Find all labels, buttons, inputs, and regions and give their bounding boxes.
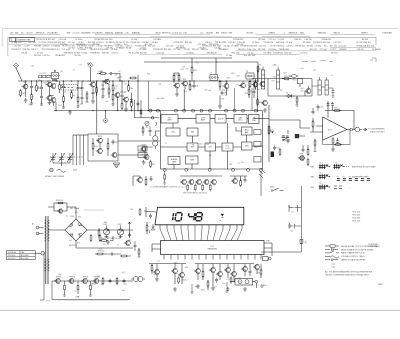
svg-text:MEDIUM WAVE OSCILLATOR SIGNAL: MEDIUM WAVE OSCILLATOR SIGNAL [341, 248, 374, 251]
transformer T901 core lines [46, 216, 48, 284]
clock IC bottom pins [164, 255, 261, 260]
svg-text:C17: C17 [157, 261, 160, 263]
clock IC left pin wires [152, 244, 161, 252]
svg-text:R52: R52 [238, 278, 241, 280]
feedback resistor R28 [334, 144, 342, 146]
bl cluster 1 wires [152, 264, 157, 277]
parts list table frame [8, 37, 376, 56]
svg-text:C14: C14 [70, 90, 73, 92]
below-triangle wires [333, 138, 338, 147]
svg-text:T3: T3 [246, 71, 248, 73]
svg-text:C17: C17 [124, 284, 127, 286]
psu lower parts row res [96, 253, 104, 255]
svg-text:R24: R24 [58, 274, 61, 276]
T2 feeder wire [216, 58, 218, 75]
svg-text:R63: R63 [195, 286, 198, 288]
capacitor C3 [62, 85, 65, 90]
svg-text:R44 120k: R44 120k [276, 42, 284, 44]
svg-text:AM: AM [15, 32, 18, 35]
pad P3 [175, 109, 178, 112]
svg-text:R24: R24 [99, 248, 102, 250]
svg-text:R77: R77 [292, 79, 295, 81]
legend row 1 [325, 245, 380, 248]
svg-text:T903 25V: T903 25V [352, 218, 361, 220]
svg-text:C5: C5 [115, 86, 117, 88]
svg-text:T2: T2 [210, 73, 212, 75]
svg-text:10p: 10p [257, 89, 260, 91]
svg-text:R31: R31 [147, 73, 150, 75]
svg-text:120k: 120k [288, 76, 292, 78]
output stage box [235, 279, 253, 286]
svg-text:1n: 1n [128, 223, 130, 225]
svg-text:TR905: TR905 [83, 277, 89, 279]
svg-text:C8: C8 [196, 86, 198, 88]
svg-text:DIGIT STROBE D1 D2 D3 D4: DIGIT STROBE D1 D2 D3 D4 [183, 192, 207, 194]
svg-text:R5 1M: R5 1M [22, 52, 28, 54]
tone pot box [295, 134, 305, 138]
parts list rule segments [8, 37, 376, 55]
svg-text:C15: C15 [276, 148, 279, 150]
svg-text:AM: AM [216, 32, 219, 35]
svg-text:47u: 47u [75, 212, 78, 214]
svg-text:SET FAST·SLOW: SET FAST·SLOW [107, 237, 121, 240]
capacitor C5b [92, 91, 95, 96]
SK2 contact pairs [337, 176, 374, 182]
dc junction dots [107, 229, 120, 230]
pad P7 [209, 109, 212, 112]
transistor TR16 [96, 136, 102, 143]
svg-text:R12: R12 [243, 269, 246, 271]
stage2 stubs [60, 81, 64, 93]
svg-text:25u: 25u [103, 244, 106, 246]
svg-text:MM5316N: MM5316N [208, 248, 218, 250]
volume pot resistor R22v [268, 125, 274, 136]
second tier chain c6 wire [86, 91, 89, 102]
transistor TR21 [298, 154, 304, 161]
svg-text:C44 25u: C44 25u [305, 39, 312, 41]
series resistor R902 [99, 234, 106, 242]
bl cluster 4 wires [213, 264, 220, 286]
output coupling elco C18 [355, 127, 360, 132]
resistor R13b [255, 80, 257, 88]
svg-text:C44: C44 [75, 297, 78, 299]
svg-text:56k: 56k [222, 99, 225, 101]
resistor R8 [121, 102, 123, 110]
block U9 BUF [187, 143, 198, 151]
bl cluster 4 [209, 267, 215, 272]
svg-text:R7: R7 [227, 90, 229, 92]
svg-text:R15: R15 [193, 70, 196, 72]
svg-text:FM AFC · AM TUNING: FM AFC · AM TUNING [45, 175, 65, 178]
svg-text:680: 680 [87, 81, 90, 83]
bl cluster 6 [241, 266, 247, 271]
block U14 TONE [186, 156, 199, 164]
module feed vertical 2 [251, 88, 253, 111]
op-amp IC3 triangle [323, 117, 347, 140]
svg-text:1 3 5: 1 3 5 [319, 183, 323, 185]
svg-text:4p7: 4p7 [280, 89, 283, 91]
bl cluster 2 [171, 268, 177, 273]
under-table marks right [302, 61, 333, 62]
svg-text:4k7: 4k7 [237, 76, 240, 78]
svg-text:R77: R77 [80, 104, 83, 106]
wire to op-amp [269, 120, 310, 128]
trimmer right parts [146, 224, 148, 232]
svg-text:C902: C902 [118, 224, 122, 226]
left feed part [140, 108, 142, 115]
mains selector pad [41, 251, 45, 255]
stage wires TL right [113, 81, 132, 110]
svg-text:C2 68p: C2 68p [226, 55, 232, 57]
svg-text:50Hz: 50Hz [266, 241, 270, 243]
pad P9 [233, 109, 236, 112]
TR14b wire [305, 86, 309, 96]
IF can T7 tall [325, 77, 328, 95]
svg-text:2nd IF: 2nd IF [218, 119, 224, 121]
legend row 5 [325, 259, 366, 262]
tone cap [287, 139, 290, 144]
bl cluster 6 wires [245, 264, 250, 276]
resistor R20 [92, 142, 98, 150]
jack row SK2 [311, 172, 368, 179]
bl cluster 2 wires [175, 264, 182, 284]
svg-text:TR8: TR8 [300, 154, 304, 156]
svg-text:C9 10p: C9 10p [224, 46, 230, 48]
second tier chain c2 [40, 95, 43, 100]
svg-text:25u: 25u [241, 162, 244, 164]
svg-text:R1: R1 [61, 71, 63, 73]
TR1 emitter wire [25, 89, 27, 97]
svg-text:R5 1M: R5 1M [126, 47, 132, 49]
resistor R11 [178, 73, 180, 81]
svg-text:R44 120k: R44 120k [232, 52, 240, 54]
second tier chain c5 wire [81, 94, 83, 104]
bottom row bus wire [149, 263, 254, 265]
capacitor C10 [253, 90, 256, 95]
block interconnect wires [160, 119, 262, 169]
supply feed cap C6 [109, 72, 114, 75]
svg-text:T4: T4 [259, 65, 261, 67]
svg-text:a b: a b [355, 176, 357, 178]
mains plug pins [32, 223, 44, 235]
svg-text:C4 40p: C4 40p [152, 42, 158, 44]
svg-text:C28: C28 [130, 209, 133, 211]
audio part PA3 [116, 277, 118, 285]
bottom extra res wire [207, 280, 209, 290]
resistor R4 [59, 83, 64, 91]
svg-text:C9: C9 [165, 143, 167, 145]
parts list text row y40 [36, 38, 368, 41]
trimmer lower resistor [100, 240, 108, 242]
svg-text:OVERLEAF: OVERLEAF [368, 245, 378, 248]
svg-text:+ (a): + (a) [331, 263, 335, 265]
resistor R14 [257, 65, 263, 73]
capacitor C17 [327, 102, 330, 107]
bottom extra ground 1 [173, 287, 177, 291]
TR4 wires [93, 81, 97, 99]
af takeoff wire [263, 118, 270, 120]
resistor R23 [139, 208, 141, 216]
svg-text:R1: R1 [196, 62, 198, 64]
label texture audio row [58, 272, 127, 299]
parts list text row y47 [14, 45, 374, 48]
svg-text:C9 10p: C9 10p [131, 39, 137, 41]
resistor R22 [150, 160, 156, 168]
svg-text:C2 68p: C2 68p [315, 46, 321, 48]
svg-text:R12 4k7: R12 4k7 [53, 49, 60, 51]
right small res R26c [314, 139, 316, 147]
svg-text:C44: C44 [31, 66, 34, 68]
legend row 2 [325, 248, 374, 251]
svg-text:TR16: TR16 [98, 136, 103, 138]
psu lower parts row res2 [120, 255, 128, 257]
svg-text:2n2: 2n2 [31, 96, 34, 98]
svg-text:C21: C21 [285, 80, 288, 82]
page top edge [2, 28, 398, 30]
output pad right [255, 280, 258, 283]
left module cap [149, 129, 152, 134]
svg-text:W133: W133 [155, 33, 161, 35]
mains table box [7, 251, 36, 261]
second tier chain c5 [81, 96, 84, 101]
TR3 grounds [48, 101, 52, 105]
transistor TR6 [114, 92, 120, 97]
svg-text:R63: R63 [237, 281, 240, 283]
parts list text row y50 [11, 48, 381, 51]
small bias box row 1 [39, 75, 42, 78]
svg-text:1k2: 1k2 [101, 284, 104, 286]
label texture module [165, 143, 258, 166]
tone cap column [287, 130, 289, 134]
capacitor C8 [193, 84, 199, 89]
bl cluster 1 ground [155, 277, 159, 281]
filter stubs [78, 81, 82, 94]
legend sidebar text [368, 244, 379, 248]
display feed wires left [144, 207, 156, 217]
svg-text:VOLTAGES: VOLTAGES [47, 32, 58, 35]
block U8 AGC [242, 127, 253, 135]
feeder inline box [300, 240, 307, 244]
bl cluster 5 wires [228, 264, 234, 282]
svg-text:C14: C14 [37, 87, 40, 89]
svg-text:68p: 68p [217, 274, 220, 276]
audio transistor TA2 [68, 277, 75, 284]
svg-text:47u: 47u [87, 63, 90, 65]
label texture RF left [23, 63, 127, 107]
module top bus wire [150, 110, 263, 112]
svg-text:R24: R24 [283, 72, 286, 74]
svg-text:R21 56k: R21 56k [323, 42, 330, 44]
IF mid oval cap [289, 75, 298, 78]
sleep part 1 wire [298, 206, 302, 208]
transistor TR18 [111, 152, 117, 157]
left feed pad [151, 117, 154, 120]
audio resistor RA3 [90, 284, 92, 292]
svg-text:25u: 25u [184, 280, 187, 282]
driver transistor TD4 [203, 179, 209, 184]
svg-text:R12: R12 [189, 85, 192, 87]
svg-text:C36 0.1: C36 0.1 [112, 52, 119, 54]
svg-text:MANUAL: MANUAL [132, 32, 141, 35]
svg-text:VOLTAGES: VOLTAGES [92, 32, 103, 35]
svg-text:C2: C2 [75, 291, 77, 293]
trimmer part low [128, 233, 131, 238]
svg-text:10k: 10k [209, 155, 212, 157]
svg-text:C44: C44 [63, 91, 66, 93]
svg-text:1k2: 1k2 [101, 98, 104, 100]
transformer secondary arcs [45, 259, 50, 271]
gang top wire [73, 134, 88, 136]
osc box internal wires [93, 138, 108, 156]
svg-text:C31 0.04: C31 0.04 [62, 49, 70, 51]
svg-text:TR19: TR19 [141, 145, 146, 147]
IF can T6 tall [318, 77, 321, 95]
svg-text:R12 4k7: R12 4k7 [48, 39, 55, 41]
svg-text:4k7: 4k7 [154, 274, 157, 276]
left driver cap [150, 177, 153, 182]
gang bottom wire [53, 163, 70, 166]
svg-text:VOLTAGE: VOLTAGE [8, 251, 17, 254]
opamp lower wires [303, 145, 308, 150]
svg-text:C31: C31 [224, 95, 227, 97]
svg-text:C17: C17 [79, 64, 82, 66]
block R3 small box [254, 157, 261, 163]
svg-text:R44: R44 [105, 81, 108, 83]
T1 knot extra parts [52, 70, 57, 81]
speaker transformer circles [131, 276, 145, 281]
IF lower res R18 [296, 96, 298, 104]
label texture bottom rows [154, 261, 267, 292]
svg-text:R12 4k7: R12 4k7 [229, 42, 236, 44]
svg-text:C17 2n2: C17 2n2 [300, 52, 307, 54]
capacitor C1 [30, 85, 36, 90]
svg-text:TR9 AD162: TR9 AD162 [295, 45, 305, 48]
title text row [10, 32, 392, 35]
parts list text row y56 [34, 54, 255, 57]
svg-text:a b: a b [343, 176, 345, 178]
page bottom edge [0, 309, 400, 311]
transistor TR8 [173, 83, 179, 88]
svg-text:R21 56k: R21 56k [258, 39, 265, 41]
audio resistor RA3 stub [90, 281, 92, 294]
second tier chain c10 wire [121, 81, 123, 104]
svg-text:R7: R7 [214, 287, 216, 289]
svg-text:47u: 47u [124, 84, 127, 86]
svg-text:C40: C40 [180, 69, 183, 71]
svg-text:RADIO: RADIO [221, 32, 228, 35]
svg-text:R28 18k: R28 18k [102, 52, 109, 54]
resistor R16 [248, 88, 250, 96]
transistor TR14a [252, 82, 258, 87]
audio resistor RA2 [77, 284, 79, 292]
driver resistor RD2 [194, 184, 196, 192]
label texture RF mid [147, 62, 259, 100]
svg-text:a b: a b [361, 176, 363, 178]
svg-text:C2: C2 [237, 163, 239, 165]
transistor TR3b [50, 97, 56, 102]
svg-text:470: 470 [101, 85, 104, 87]
capacitor C2 [40, 86, 43, 91]
varicap line wires [73, 135, 84, 165]
long stalk 1 [190, 284, 193, 293]
svg-text:LOG: LOG [226, 148, 230, 150]
resistor R2 [36, 84, 41, 92]
driver transistor TD5 [210, 179, 216, 184]
decoupling resistor R29 [332, 137, 334, 145]
IF transformer T3 [245, 71, 256, 79]
svg-text:2k2: 2k2 [255, 147, 258, 149]
svg-text:R44 120k: R44 120k [100, 49, 108, 51]
psu lower row wires [95, 254, 131, 256]
svg-text:T4 OSC: T4 OSC [270, 46, 277, 48]
svg-text:TR2 BF195: TR2 BF195 [233, 39, 243, 41]
parts list text row y48 [68, 46, 221, 49]
mixer feed wires [118, 131, 160, 155]
capacitor C16 [317, 105, 324, 110]
pad P1 [149, 109, 152, 112]
svg-text:D3 OA90: D3 OA90 [264, 51, 272, 54]
pad P6 [200, 109, 203, 112]
transistor TR2 [46, 82, 52, 87]
bl cluster 7 wires [257, 264, 261, 278]
transistor TR1 [22, 82, 28, 89]
svg-text:TO LOUDSPEAKER: TO LOUDSPEAKER [368, 127, 385, 130]
alarm indicator symbol [220, 214, 224, 222]
svg-text:1n: 1n [93, 284, 95, 286]
svg-text:470: 470 [184, 91, 187, 93]
svg-text:D7 BA100: D7 BA100 [372, 48, 381, 51]
TR3b drop wire [50, 96, 54, 107]
svg-text:L5 455kc: L5 455kc [252, 42, 260, 44]
transistor TR20 [143, 154, 149, 159]
tone chain contact 1 [282, 136, 289, 138]
svg-text:TR9 AD162: TR9 AD162 [55, 54, 65, 57]
hatched ground triangle [113, 163, 120, 168]
svg-text:47u: 47u [245, 93, 248, 95]
trimmer wires [99, 222, 147, 241]
svg-text:R63 1k2: R63 1k2 [192, 49, 199, 51]
svg-text:4p7: 4p7 [69, 240, 72, 242]
svg-text:R63 1k2: R63 1k2 [277, 46, 284, 48]
supply rail right wire [161, 57, 232, 59]
svg-text:R18: R18 [28, 105, 31, 107]
pad P5 [192, 109, 195, 112]
mains selector wire [35, 252, 41, 254]
audio transistor TA3 [81, 277, 88, 284]
pad P10 [242, 109, 245, 112]
ground lower bus [68, 110, 72, 114]
parts list text row y53 [22, 51, 339, 54]
svg-text:T901 25V: T901 25V [352, 212, 361, 214]
svg-text:R7: R7 [91, 94, 93, 96]
svg-text:R44 120k: R44 120k [105, 39, 113, 41]
transistor TR10 [223, 82, 229, 89]
svg-text:R901 1k2: R901 1k2 [56, 200, 63, 202]
svg-text:470: 470 [229, 164, 232, 166]
svg-text:R902: R902 [101, 238, 106, 240]
svg-text:FS1 250mA: FS1 250mA [70, 207, 80, 210]
svg-text:10k: 10k [301, 91, 304, 93]
svg-text:D7 BA100: D7 BA100 [106, 41, 115, 44]
vertical feed wire left [96, 81, 98, 134]
svg-text:TR2 BF195: TR2 BF195 [273, 52, 283, 54]
svg-text:R20: R20 [94, 146, 97, 148]
svg-text:C31 0.04: C31 0.04 [166, 46, 174, 48]
vol dark blob [271, 152, 274, 158]
svg-text:C31: C31 [158, 83, 161, 85]
svg-text:R12 4k7: R12 4k7 [148, 46, 155, 48]
bottom extra ground 2 [243, 287, 247, 291]
